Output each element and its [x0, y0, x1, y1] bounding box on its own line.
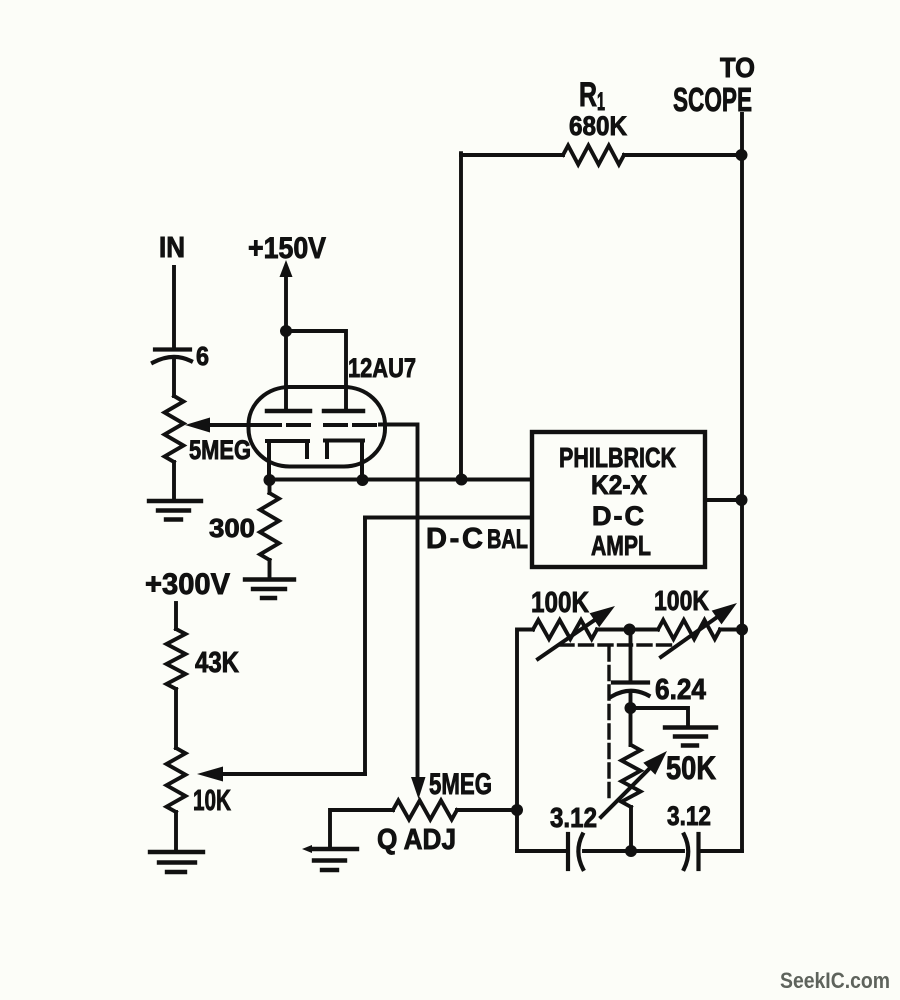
- cathode left triode: [267, 441, 308, 480]
- svg-text:50K: 50K: [666, 750, 716, 786]
- capacitor 6.24 curved plate: [612, 691, 649, 697]
- capacitor 3.12 left curved plate: [578, 835, 583, 870]
- wire 5MEG wiper arrow lead: [207, 423, 257, 427]
- wire bottom bus right segment: [699, 849, 743, 853]
- ground G4 at Q-ADJ: [310, 849, 357, 870]
- wire plate jumper to right triode: [286, 331, 346, 409]
- plate bar left triode: [267, 409, 310, 414]
- svg-text:BAL: BAL: [487, 524, 528, 554]
- wire top feedback bus y=155 left segment: [461, 153, 563, 157]
- svg-text:300: 300: [209, 513, 255, 543]
- junction dot Q-ADJ to bridge: [511, 804, 523, 816]
- svg-text:6.24: 6.24: [655, 674, 706, 706]
- potentiometer 5MEG input body: [165, 396, 184, 462]
- capacitor 3.12 right curved plate: [684, 835, 688, 870]
- svg-text:K2-X: K2-X: [591, 470, 647, 500]
- wire bridge top-left corner: [517, 630, 533, 852]
- wire left feedback vertical x=461: [459, 153, 463, 479]
- svg-text:+150V: +150V: [248, 232, 326, 265]
- svg-text:SeekIC.com: SeekIC.com: [780, 968, 890, 993]
- svg-text:43K: 43K: [195, 647, 239, 679]
- arrowhead 10K wiper: [197, 767, 223, 782]
- resistor R1 680K: [563, 146, 624, 165]
- wire TO SCOPE output vertical x=742: [740, 114, 744, 851]
- wire 43K to 10K: [174, 689, 178, 748]
- wire bottom bus left segment: [517, 849, 568, 853]
- potentiometer 50K body: [622, 745, 641, 807]
- svg-text:12AU7: 12AU7: [348, 353, 416, 383]
- svg-text:6: 6: [196, 341, 209, 371]
- wire D-C BAL horizontal to amplifier: [365, 516, 532, 520]
- svg-text:10K: 10K: [193, 785, 231, 817]
- plate bar right triode: [324, 409, 363, 414]
- dashed gang link vertical: [607, 647, 610, 798]
- svg-text:AMPL: AMPL: [591, 530, 651, 561]
- wire cathode bus to amplifier input: [270, 478, 533, 482]
- svg-text:D-C: D-C: [592, 501, 644, 531]
- svg-text:Q ADJ: Q ADJ: [377, 824, 456, 856]
- grid dashed line inside tube: [259, 423, 375, 427]
- arrow 100K first wiper: [538, 617, 599, 659]
- junction dot feedback to cathode bus: [456, 474, 468, 486]
- capacitor C 6 curved plate: [153, 357, 191, 363]
- wire bridge center to 6.24 cap: [629, 630, 633, 683]
- wire D-C BAL vertical x=365: [363, 518, 367, 775]
- svg-text:100K: 100K: [654, 585, 709, 616]
- arrow 100K second wiper: [661, 614, 722, 657]
- junction dot bottom bus: [625, 845, 637, 857]
- resistor 43K: [167, 629, 186, 689]
- resistor 300: [260, 493, 279, 560]
- capacitor 3.12 left straight plate: [566, 834, 570, 869]
- capacitor 3.12 right straight plate: [696, 834, 700, 869]
- wire bottom bus center segment: [584, 849, 683, 853]
- potentiometer 10K body: [167, 748, 186, 812]
- junction dot left cathode node: [264, 474, 276, 486]
- svg-text:3.12: 3.12: [550, 802, 597, 833]
- ground G2 below 300: [245, 580, 294, 599]
- wire 6.24 to ground tap: [631, 692, 689, 745]
- wire 5MEG pot bottom to ground: [172, 462, 176, 501]
- ground G1 below input pot: [149, 501, 201, 520]
- op-amp U1 PHILBRICK K2-X box: [532, 432, 705, 567]
- wire +300V lead: [174, 603, 178, 629]
- arrowhead 5MEG wiper: [185, 418, 210, 433]
- wire 300 to ground: [268, 560, 272, 579]
- svg-text:100K: 100K: [531, 587, 589, 619]
- wire Q-ADJ right lead: [457, 808, 517, 812]
- svg-text:R: R: [579, 76, 597, 114]
- svg-text:IN: IN: [159, 232, 185, 264]
- ground G3 below 10K: [150, 852, 203, 872]
- wire between 100K pots: [597, 628, 658, 632]
- wire 10K wiper lead from D-C BAL: [222, 772, 365, 776]
- junction dot right cathode node: [357, 474, 369, 486]
- dashed gang link horizontal: [560, 643, 676, 646]
- potentiometer 100K first body: [533, 620, 597, 639]
- arrowhead +150V up: [280, 260, 293, 277]
- wire 10K to ground: [174, 812, 178, 852]
- junction dot bridge center top: [624, 624, 636, 636]
- svg-text:PHILBRICK: PHILBRICK: [559, 442, 676, 473]
- wire grid exit right to Q-ADJ vertical: [380, 425, 418, 780]
- junction dot plate supply: [280, 325, 292, 337]
- wire amplifier output: [705, 498, 742, 502]
- cathode right triode: [325, 441, 363, 481]
- svg-text:3.12: 3.12: [667, 801, 711, 831]
- junction dot below 6.24: [625, 702, 637, 714]
- junction dot output node: [736, 494, 748, 506]
- svg-text:680K: 680K: [569, 111, 627, 141]
- junction dot bridge top right: [736, 624, 748, 636]
- svg-text:D-C: D-C: [426, 523, 483, 555]
- tube 12AU7 envelope: [249, 387, 386, 467]
- junction dot scope/feedback: [736, 149, 748, 161]
- svg-text:5MEG: 5MEG: [429, 768, 492, 801]
- wire second 100K to output bus: [720, 628, 742, 632]
- svg-text:+300V: +300V: [145, 568, 230, 601]
- arrow 50K wiper: [601, 764, 654, 817]
- arrowhead Q-ADJ wiper down: [411, 777, 426, 799]
- potentiometer Q-ADJ 5MEG body: [393, 801, 457, 820]
- wire IN input lead: [172, 267, 176, 348]
- svg-text:5MEG: 5MEG: [189, 435, 251, 465]
- wire cathode to 300 resistor: [268, 480, 272, 493]
- wire left plate lead x=286: [284, 331, 288, 409]
- wire 50K to bottom bus: [629, 807, 633, 851]
- ground G5 at 6.24 tap: [665, 728, 716, 746]
- wire top feedback bus y=155 right segment: [624, 153, 742, 157]
- capacitor C 6 top plate: [155, 347, 190, 351]
- potentiometer 100K second body: [658, 620, 720, 639]
- svg-text:TO: TO: [720, 52, 755, 83]
- arrowhead tick ground G4: [302, 845, 312, 853]
- wire +150V to plate junction: [284, 274, 288, 331]
- capacitor 6.24 top plate: [613, 680, 648, 684]
- wire cap to 5MEG pot: [172, 358, 176, 397]
- wire Q-ADJ left lead to ground: [330, 810, 393, 848]
